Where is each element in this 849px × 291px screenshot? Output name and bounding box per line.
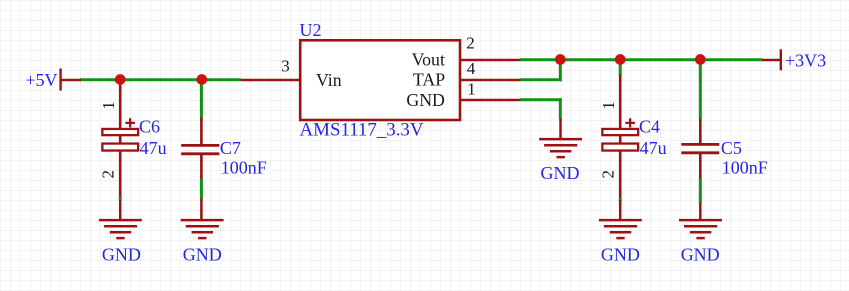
capacitor C6 pin 1 wire [119, 80, 122, 130]
svg-text:+5V: +5V [25, 70, 57, 90]
wire TAP horizontal (green) [520, 78, 562, 81]
wire C5 riser (green) [699, 60, 702, 119]
svg-text:GND: GND [601, 244, 640, 264]
capacitor C7 pin 2 wire [200, 155, 203, 180]
svg-text:100nF: 100nF [221, 158, 267, 178]
svg-text:Vout: Vout [412, 50, 445, 70]
capacitor C6 plates (polarized) [102, 129, 138, 151]
capacitor C5 plates [681, 144, 719, 152]
wire stub C4 to ground (green) [619, 197, 622, 201]
svg-text:2: 2 [466, 34, 475, 53]
junction dot (+5V rail / C6) [115, 74, 126, 85]
pin 4 lead (TAP) [459, 79, 521, 82]
wire C7 riser (green) [200, 80, 203, 118]
capacitor C5 pin 1 wire [699, 119, 702, 145]
capacitor C6 pin 2 wire [119, 151, 122, 198]
capacitor C5 pin 2 wire [699, 154, 702, 179]
svg-text:47u: 47u [140, 138, 167, 158]
svg-text:C5: C5 [721, 138, 742, 158]
svg-text:2: 2 [598, 170, 617, 179]
capacitor C4 pin 2 wire [619, 151, 622, 198]
capacitor C7 pin 1 wire [200, 118, 203, 146]
svg-text:1: 1 [467, 79, 476, 98]
svg-text:U2: U2 [300, 20, 322, 40]
capacitor C4 plates (polarized) [602, 129, 638, 151]
junction dot (rail / C5) [695, 54, 706, 65]
wire C7 to ground (green) [200, 179, 203, 199]
wire: +5V rail (green) [80, 78, 241, 81]
plus sign (C6) [125, 118, 134, 127]
IC U2 body [300, 40, 460, 120]
capacitor C4 inter-plate link [619, 135, 622, 145]
power port +3V3 (lead and bar) [762, 49, 781, 70]
svg-text:2: 2 [98, 170, 117, 179]
svg-text:+3V3: +3V3 [785, 51, 826, 71]
junction dot (Vout rail / TAP) [555, 54, 566, 65]
pin 1 lead (GND) [459, 99, 521, 102]
svg-text:C7: C7 [220, 138, 241, 158]
svg-text:AMS1117_3.3V: AMS1117_3.3V [300, 119, 424, 140]
svg-text:Vin: Vin [316, 70, 342, 90]
svg-text:47u: 47u [640, 138, 667, 158]
svg-text:GND: GND [102, 244, 141, 264]
svg-text:100nF: 100nF [722, 158, 768, 178]
capacitor C6 inter-plate link [119, 135, 122, 145]
wire: +3V3 rail (green) [520, 58, 763, 61]
ground symbol (C6) [99, 200, 142, 238]
capacitor C4 top wire (green) [619, 60, 622, 76]
ground symbol (C5) [679, 203, 722, 239]
ground symbol (C7) [181, 199, 224, 239]
plus sign (C4) [625, 118, 635, 127]
wire C5 to ground (green) [699, 178, 702, 203]
pin 3 lead (Vin) [241, 79, 301, 82]
pin 2 lead (Vout) [459, 59, 521, 62]
junction dot (+5V rail / C7) [196, 74, 207, 85]
svg-text:3: 3 [281, 57, 290, 76]
power port +5V (bar and lead) [61, 69, 81, 91]
svg-text:C4: C4 [639, 116, 660, 136]
wire stub C6 to ground (green) [119, 198, 122, 201]
ground symbol (C4) [599, 200, 642, 238]
svg-text:GND: GND [681, 244, 720, 264]
capacitor C7 plates [181, 145, 219, 153]
junction dot (rail / C4) [615, 54, 626, 65]
svg-text:GND: GND [183, 244, 222, 264]
wire TAP riser to rail (green) [559, 59, 562, 82]
svg-text:TAP: TAP [413, 70, 445, 90]
svg-text:GND: GND [406, 90, 445, 110]
svg-text:C6: C6 [139, 116, 160, 136]
capacitor C4 pin 1 wire [619, 75, 622, 130]
svg-text:1: 1 [99, 101, 118, 110]
ground symbol (U2 GND) [539, 119, 582, 158]
wire pin1 riser down (green) [559, 98, 562, 119]
wire pin1 horizontal (green) [520, 98, 562, 101]
svg-text:1: 1 [599, 101, 618, 110]
svg-text:GND: GND [541, 163, 580, 183]
svg-text:4: 4 [467, 59, 476, 78]
